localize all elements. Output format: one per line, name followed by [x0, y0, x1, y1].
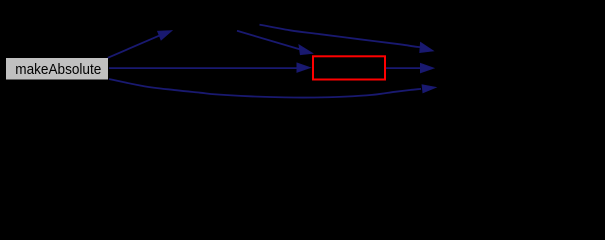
edge makeAbsolute -> top node [108, 31, 172, 58]
node makeAbsolute [6, 58, 109, 81]
edge makeAbsolute -> bottom-right node (curved) [109, 79, 436, 98]
edge makeAbsolute -> red node [109, 63, 311, 73]
svg-text:makeAbsolute: makeAbsolute [15, 62, 101, 78]
edge top node -> red node [237, 31, 313, 55]
node (red bordered, hidden label) [313, 56, 385, 79]
edge red node -> right node [386, 63, 434, 73]
edge top node -> right node [260, 25, 434, 53]
